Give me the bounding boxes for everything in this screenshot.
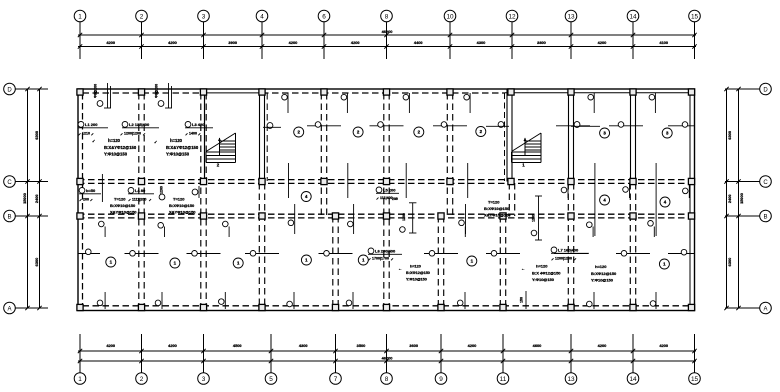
svg-text:14: 14 xyxy=(629,13,637,20)
annotation block corridor west xyxy=(110,197,137,215)
left dimension band xyxy=(15,89,48,308)
svg-text:4100: 4100 xyxy=(659,40,668,45)
slab panel mark 1 at (306,260) xyxy=(301,255,311,265)
svg-text:Φ8@200: Φ8@200 xyxy=(155,84,159,98)
corridor dim mark near grid12 xyxy=(531,196,542,240)
svg-text:4200: 4200 xyxy=(598,343,607,348)
corridor beam label L4 xyxy=(128,188,154,202)
beam label L3 (top band) xyxy=(185,122,213,136)
beams grid 2 (dashed pair D-A) xyxy=(139,93,144,306)
svg-text:8: 8 xyxy=(385,13,389,20)
svg-text:Φ8@200: Φ8@200 xyxy=(94,84,98,98)
bottom dimension band xyxy=(78,334,696,373)
svg-text:4200: 4200 xyxy=(659,343,668,348)
svg-text:T=120: T=120 xyxy=(173,197,185,202)
svg-text:6: 6 xyxy=(322,13,326,20)
svg-text:B:XΦ10@150: B:XΦ10@150 xyxy=(169,203,195,208)
svg-text:1200|1200: 1200|1200 xyxy=(555,257,572,261)
svg-text:1400: 1400 xyxy=(189,132,197,136)
bottom grid bubbles 1..15 xyxy=(74,373,700,385)
slab panel mark 4 at (604,200) xyxy=(600,195,610,205)
beams grid 14 (dashed pair C-A) xyxy=(630,183,635,306)
svg-text:1200: 1200 xyxy=(402,213,406,221)
slab panel mark 1 at (664,264) xyxy=(659,259,669,269)
bottom bay dimension values xyxy=(106,343,668,360)
svg-text:3800: 3800 xyxy=(537,40,546,45)
corridor beam label b=50 xyxy=(79,188,101,202)
svg-text:✓: ✓ xyxy=(92,139,96,144)
axis B beam lines xyxy=(78,214,690,218)
svg-text:1200|1200: 1200|1200 xyxy=(124,132,141,136)
beams grid 9 (dashed pair B-A) xyxy=(438,216,443,306)
svg-text:B: B xyxy=(7,214,11,220)
svg-text:L5 200: L5 200 xyxy=(383,188,396,193)
svg-text:111|400: 111|400 xyxy=(380,196,393,200)
bottom dim mark near grid11 xyxy=(520,291,527,309)
svg-text:4200: 4200 xyxy=(106,343,115,348)
annotation block bay1-2 top xyxy=(92,138,137,157)
svg-text:B:X 4Φ12@150: B:X 4Φ12@150 xyxy=(532,270,561,275)
svg-text:4200: 4200 xyxy=(598,40,607,45)
svg-text:4600: 4600 xyxy=(533,343,542,348)
svg-text:X&YΦ10@150: X&YΦ10@150 xyxy=(169,209,196,214)
columns row C xyxy=(77,178,695,184)
svg-text:h=120: h=120 xyxy=(410,265,421,269)
svg-text:B:XΦ12@150: B:XΦ12@150 xyxy=(591,271,617,276)
svg-text:Y:Φ10@150: Y:Φ10@150 xyxy=(104,152,128,157)
svg-text:12: 12 xyxy=(508,13,516,20)
svg-text:1111|200: 1111|200 xyxy=(132,197,146,201)
svg-text:11: 11 xyxy=(500,376,507,383)
wall grid 13 (solid D-C) xyxy=(569,89,574,182)
rebar crossing axis C xyxy=(289,163,690,198)
svg-text:6300: 6300 xyxy=(727,131,732,140)
slab panel mark 2 at (480,131) xyxy=(476,127,486,137)
svg-text:C: C xyxy=(763,180,768,186)
svg-text:6300: 6300 xyxy=(34,131,39,140)
columns row A xyxy=(77,304,695,310)
stairwell1 east dashed line xyxy=(266,93,268,181)
beam mark west of stairwell2 xyxy=(486,122,509,128)
svg-text:h=120: h=120 xyxy=(170,138,183,143)
svg-text:15000: 15000 xyxy=(22,193,27,204)
columns row D xyxy=(77,89,695,95)
svg-text:L7 160|400: L7 160|400 xyxy=(558,248,579,253)
svg-text:✓: ✓ xyxy=(154,140,158,145)
svg-text:L1 200: L1 200 xyxy=(85,122,98,127)
svg-text:A: A xyxy=(763,306,767,312)
slab panel mark 1 at (238,263) xyxy=(233,258,243,268)
hanger dim mark near grid2 top xyxy=(155,83,173,108)
annotation block bottom east1 xyxy=(521,264,561,283)
svg-text:3900: 3900 xyxy=(228,40,237,45)
svg-text:4300: 4300 xyxy=(299,343,308,348)
top-band slab rebar (horizontal) xyxy=(307,122,695,128)
svg-text:4400: 4400 xyxy=(414,40,423,45)
svg-text:46200: 46200 xyxy=(382,355,393,360)
beams grid 4 (dashed pair C-A) xyxy=(259,183,264,306)
stairwell2 west wall grid12 (solid) xyxy=(505,89,513,182)
right dimension band xyxy=(725,89,760,308)
top bay dimension values xyxy=(106,29,668,45)
svg-text:15000: 15000 xyxy=(739,193,744,204)
beams grid 13 (dashed pair C-A) xyxy=(568,183,573,306)
svg-text:3: 3 xyxy=(202,376,206,383)
bottom-band slab rebar (horizontal) xyxy=(78,204,695,256)
svg-text:L2 135|400: L2 135|400 xyxy=(129,122,150,127)
beam mark east of stairwell2 xyxy=(571,122,600,128)
svg-text:13: 13 xyxy=(567,376,575,383)
svg-text:1: 1 xyxy=(78,13,82,20)
svg-text:A: A xyxy=(7,306,11,312)
slab panel mark 1 at (471,261) xyxy=(467,256,477,266)
beams grid 6 (dashed pair D-B) xyxy=(321,93,326,216)
slab panel mark 2 at (298,132) xyxy=(294,127,304,137)
svg-text:1200: 1200 xyxy=(532,214,536,222)
corridor beam mark grid4 xyxy=(192,186,199,198)
svg-text:4200: 4200 xyxy=(351,40,360,45)
right grid bubbles D C B A xyxy=(760,83,772,314)
annotation block bottom east2 xyxy=(591,264,617,283)
svg-text:L3 420: L3 420 xyxy=(192,122,205,127)
svg-text:3: 3 xyxy=(202,13,206,20)
svg-text:15: 15 xyxy=(691,376,699,383)
beams grid 11 (dashed pair B-A) xyxy=(500,216,505,306)
svg-text:B: B xyxy=(763,214,767,220)
rebar crossing axis A xyxy=(97,292,656,309)
svg-text:1: 1 xyxy=(78,376,82,383)
svg-text:4200: 4200 xyxy=(468,343,477,348)
bottom beam label L7 xyxy=(551,247,589,261)
rebar crossing axis B xyxy=(99,174,657,237)
svg-text:6300: 6300 xyxy=(34,258,39,267)
bottom dimension ticks xyxy=(78,349,697,363)
stairwell1 east wall grid4 (solid) xyxy=(260,89,265,182)
svg-text:3500: 3500 xyxy=(357,343,366,348)
annotation block corridor mid xyxy=(169,197,196,215)
stairwell1 west wall grid3 xyxy=(204,89,206,182)
svg-text:Y:Φ10@150: Y:Φ10@150 xyxy=(166,152,190,157)
svg-text:B:X&YΦ12@150: B:X&YΦ12@150 xyxy=(104,145,137,150)
svg-text:150: 150 xyxy=(520,297,524,303)
svg-text:14: 14 xyxy=(629,376,637,383)
wall grid 14 (solid D-C) xyxy=(631,89,636,182)
svg-text:8: 8 xyxy=(385,376,389,383)
corridor rotated dim near grid3 xyxy=(159,186,165,200)
beams grid 3 (dashed pair D-A) xyxy=(201,93,206,306)
svg-text:Y:Φ10@150: Y:Φ10@150 xyxy=(591,278,614,283)
rebar hangers on axis D xyxy=(282,93,656,113)
slab panel mark 3 at (667,133) xyxy=(662,128,672,138)
svg-text:10: 10 xyxy=(446,13,454,20)
svg-text:Y:Φ10@150: Y:Φ10@150 xyxy=(532,277,555,282)
plan inner wall lines xyxy=(83,93,691,306)
columns row B xyxy=(77,213,695,219)
svg-text:B:XΦ12@150: B:XΦ12@150 xyxy=(406,271,430,275)
svg-text:1210: 1210 xyxy=(82,132,90,136)
svg-text:2400: 2400 xyxy=(727,194,732,203)
beam mark grid4 top xyxy=(263,123,281,129)
svg-text:4500: 4500 xyxy=(233,343,242,348)
svg-text:B:XΦ10@150: B:XΦ10@150 xyxy=(110,203,136,208)
hanger dim mark near grid1 top xyxy=(94,83,112,108)
svg-text:D: D xyxy=(7,87,12,93)
svg-text:7: 7 xyxy=(334,376,338,383)
beam label L2 (top band) xyxy=(121,122,160,136)
svg-text:4200: 4200 xyxy=(168,343,177,348)
svg-text:←: ← xyxy=(398,266,402,271)
annotation block bottom mid xyxy=(398,265,430,282)
slab panel mark 2 at (418,132) xyxy=(414,127,424,137)
slab panel mark 1 at (363,260) xyxy=(358,255,368,265)
slab panel mark 3 at (604,133) xyxy=(600,128,610,138)
svg-text:h=120: h=120 xyxy=(108,138,121,143)
staircase 2 (bay 3-4) xyxy=(206,133,236,168)
top dimension ticks xyxy=(78,33,697,49)
svg-text:b=50: b=50 xyxy=(86,188,96,193)
slab panel mark 4 at (665,202) xyxy=(660,197,670,207)
svg-text:T=120: T=120 xyxy=(114,197,126,202)
top dimension band xyxy=(78,22,696,59)
axis C beam lines xyxy=(78,180,690,184)
left dimension ticks xyxy=(25,87,41,310)
corridor beam label L5 xyxy=(376,187,399,200)
annotation block corridor east xyxy=(484,200,511,218)
top grid bubbles 1..15 xyxy=(74,10,700,22)
slab panel mark 1 at (110,262) xyxy=(106,257,116,267)
svg-text:4200: 4200 xyxy=(289,40,298,45)
right dimension values xyxy=(727,131,744,266)
svg-text:4200: 4200 xyxy=(106,40,115,45)
svg-text:4200: 4200 xyxy=(168,40,177,45)
svg-text:X&YΦ10@150: X&YΦ10@150 xyxy=(110,209,137,214)
svg-text:2: 2 xyxy=(140,376,144,383)
annotation block bay2-3 top xyxy=(154,138,199,157)
staircase 1 (bay 12-13) xyxy=(512,133,542,168)
beams grid 10 (dashed pair D-B) xyxy=(447,93,452,216)
bottom beam label L6 xyxy=(368,248,402,261)
svg-text:4: 4 xyxy=(260,13,264,20)
svg-text:2400: 2400 xyxy=(34,194,39,203)
svg-text:X&YΦ10@150: X&YΦ10@150 xyxy=(484,212,511,217)
plan outer wall rectangle xyxy=(78,89,695,311)
beams grid 12 (dashed pair C-B) xyxy=(509,183,514,216)
svg-text:1200: 1200 xyxy=(160,186,164,194)
beams grid 8 (dashed pair D-A) xyxy=(384,93,389,306)
svg-text:T=120: T=120 xyxy=(488,200,500,205)
svg-text:h=120: h=120 xyxy=(595,264,607,269)
slab panel mark 2 at (358,132) xyxy=(353,127,363,137)
svg-text:5: 5 xyxy=(269,376,273,383)
svg-text:C: C xyxy=(7,180,12,186)
corridor dim mark near grid8 xyxy=(392,197,416,233)
svg-text:6300: 6300 xyxy=(727,258,732,267)
svg-text:46200: 46200 xyxy=(382,29,393,34)
left dimension values xyxy=(22,131,39,266)
svg-text:1700|1700: 1700|1700 xyxy=(372,257,389,261)
slab panel mark 4 at (306,196) xyxy=(301,192,311,202)
svg-text:3600: 3600 xyxy=(409,343,418,348)
left grid bubbles D C B A xyxy=(4,83,16,314)
svg-text:13: 13 xyxy=(567,13,575,20)
svg-text:L4 80: L4 80 xyxy=(135,188,146,193)
svg-text:B:X&YΦ12@150: B:X&YΦ12@150 xyxy=(166,145,199,150)
svg-text:200: 200 xyxy=(83,197,89,201)
svg-text:←: ← xyxy=(521,266,525,271)
svg-text:h=120: h=120 xyxy=(536,264,548,269)
svg-text:Y:Φ10@150: Y:Φ10@150 xyxy=(406,278,427,282)
beam label L1 (top band) xyxy=(78,122,108,136)
svg-text:15: 15 xyxy=(691,13,699,20)
slab panel mark 1 at (174,263) xyxy=(170,258,180,268)
beams grid 7 (dashed pair B-A) xyxy=(333,216,338,306)
svg-text:B:XΦ10@150: B:XΦ10@150 xyxy=(484,206,510,211)
svg-text:D: D xyxy=(763,87,768,93)
svg-text:2: 2 xyxy=(140,13,144,20)
svg-text:9: 9 xyxy=(439,376,443,383)
svg-text:L6 200|400: L6 200|400 xyxy=(375,249,396,254)
svg-text:4300: 4300 xyxy=(477,40,486,45)
right dimension ticks xyxy=(724,87,740,310)
